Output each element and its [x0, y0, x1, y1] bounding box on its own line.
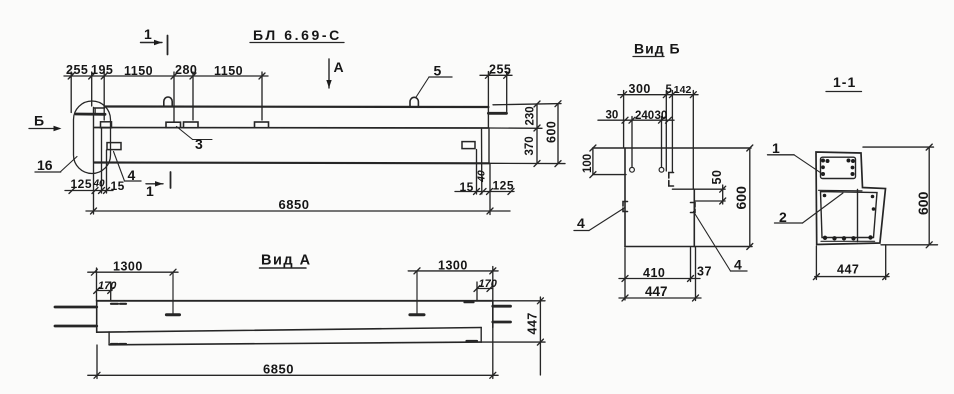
- bottom-right small dims 15 40 125: [455, 129, 514, 195]
- svg-text:100: 100: [582, 154, 594, 173]
- B left edge: [624, 148, 626, 247]
- protruding bar right: [488, 112, 506, 115]
- lifting loop 1: [164, 97, 172, 107]
- svg-text:1: 1: [144, 26, 152, 42]
- left notch step: [94, 107, 105, 109]
- plan mid line: [97, 328, 482, 333]
- plan lower-right step: [480, 328, 482, 343]
- svg-text:195: 195: [91, 63, 113, 77]
- svg-text:БЛ 6.69-С: БЛ 6.69-С: [253, 27, 342, 43]
- plan lower-left step: [108, 332, 110, 345]
- svg-text:142: 142: [674, 84, 692, 96]
- B notch bottom: [672, 188, 694, 190]
- svg-text:5: 5: [666, 84, 673, 96]
- dim 1300 left: [88, 260, 178, 302]
- dim 1300 right: [408, 259, 498, 302]
- title Вид Б: [633, 41, 681, 57]
- dim 170 left: [94, 280, 118, 301]
- plan bars left: [55, 306, 97, 309]
- plate 4 right: [462, 142, 475, 149]
- bottom-left small dims 125 40 15: [65, 128, 125, 214]
- svg-text:410: 410: [643, 266, 665, 280]
- rebar dots bottom cage: [823, 194, 876, 241]
- svg-text:15: 15: [460, 180, 474, 194]
- svg-text:255: 255: [66, 63, 88, 77]
- svg-text:1150: 1150: [214, 64, 243, 78]
- svg-text:А: А: [334, 59, 344, 75]
- B dim 50: [694, 170, 725, 204]
- svg-text:15: 15: [111, 179, 125, 193]
- svg-text:3: 3: [195, 136, 203, 152]
- section mark A: [326, 59, 343, 88]
- plan anchor T left: [172, 272, 174, 313]
- top dimension chain line: [64, 75, 268, 77]
- svg-text:1300: 1300: [438, 259, 468, 273]
- plate 4 left: [107, 143, 121, 150]
- dim 600 elevation: [557, 104, 559, 164]
- right web end face: [488, 128, 490, 163]
- B dim 300 5 142: [618, 82, 698, 189]
- label 2 section: [775, 193, 844, 225]
- svg-text:230: 230: [525, 106, 537, 125]
- label 16: [35, 157, 77, 174]
- svg-text:600: 600: [545, 121, 559, 143]
- B bar circles: [630, 167, 635, 172]
- section mark 1 top: [141, 26, 168, 55]
- svg-text:600: 600: [915, 191, 931, 215]
- plan surface marks right: [465, 301, 474, 303]
- svg-text:125: 125: [493, 179, 515, 193]
- plan surface marks left: [111, 303, 118, 305]
- lifting loop 2: [410, 97, 418, 106]
- dim 6850 plan: [88, 328, 498, 379]
- svg-text:4: 4: [577, 215, 585, 231]
- section mark 1 bottom: [146, 172, 171, 199]
- plan left end: [96, 301, 98, 332]
- svg-text:170: 170: [479, 278, 498, 290]
- svg-text:447: 447: [837, 263, 859, 277]
- svg-text:Вид А: Вид А: [261, 253, 312, 269]
- svg-text:280: 280: [175, 63, 197, 77]
- web bottom edge: [95, 161, 490, 164]
- inner vertical: [857, 190, 859, 242]
- svg-text:1-1: 1-1: [833, 74, 856, 90]
- bottom cage lower line: [821, 240, 875, 242]
- ledge line: [95, 127, 488, 130]
- plan right end: [492, 301, 494, 328]
- extension lines top chain: [70, 72, 72, 113]
- svg-text:1150: 1150: [124, 64, 153, 78]
- dim 447 plan: [481, 297, 545, 375]
- left end face: [93, 108, 95, 163]
- svg-text:1300: 1300: [113, 260, 143, 274]
- svg-text:370: 370: [524, 136, 536, 155]
- B bottom edge: [625, 246, 752, 248]
- B dim 600: [733, 145, 753, 250]
- B label 4 left: [574, 208, 625, 232]
- svg-text:447: 447: [645, 284, 668, 299]
- plate 3 pair left: [166, 122, 181, 127]
- protruding bar left: [76, 113, 105, 116]
- plate 3 at end: [101, 122, 112, 128]
- cage divider line: [819, 189, 863, 192]
- svg-text:Вид Б: Вид Б: [634, 41, 681, 57]
- svg-text:40: 40: [93, 179, 106, 190]
- title Вид А: [260, 253, 312, 269]
- right end face (flange): [487, 107, 489, 128]
- svg-text:600: 600: [733, 186, 749, 210]
- plan top edge: [97, 300, 493, 302]
- plan anchor T right: [416, 271, 418, 313]
- rebar dots top cage: [821, 159, 855, 177]
- section dim 600: [863, 144, 938, 248]
- plate 3 mid: [255, 122, 269, 128]
- title БЛ 6.69-С: [250, 27, 344, 43]
- svg-text:40: 40: [476, 170, 488, 183]
- svg-text:125: 125: [71, 177, 93, 191]
- svg-text:16: 16: [37, 157, 53, 173]
- dim 170 right: [474, 278, 498, 301]
- svg-text:4: 4: [734, 257, 742, 273]
- plan bars right: [493, 305, 511, 308]
- B dim 100: [582, 145, 626, 178]
- dim 230: [536, 104, 538, 128]
- B dim 30 240 30: [598, 110, 674, 167]
- stirrup 1 (top cage): [821, 157, 856, 178]
- svg-text:50: 50: [710, 170, 724, 185]
- B bracket left edge: [623, 202, 628, 212]
- svg-text:30: 30: [655, 110, 668, 122]
- B notch edge: [671, 148, 673, 172]
- svg-text:30: 30: [606, 110, 619, 122]
- svg-text:6850: 6850: [263, 362, 294, 377]
- svg-text:1: 1: [772, 140, 780, 156]
- svg-text:5: 5: [434, 63, 442, 79]
- view mark Б: [29, 113, 62, 132]
- B dim 447: [619, 248, 701, 302]
- svg-text:6850: 6850: [279, 197, 310, 212]
- section outline: [816, 152, 886, 245]
- svg-text:Б: Б: [34, 113, 44, 129]
- right side ext lines elevation: [493, 104, 561, 105]
- B dim 410 37: [619, 248, 712, 301]
- B notch bracket: [669, 173, 674, 187]
- svg-text:300: 300: [629, 82, 651, 96]
- B right edge: [693, 189, 695, 246]
- right 255 dim: [480, 74, 512, 76]
- svg-text:37: 37: [697, 265, 712, 279]
- svg-text:1: 1: [146, 183, 154, 199]
- svg-text:255: 255: [489, 63, 511, 77]
- B top edge: [593, 147, 751, 149]
- stirrup 2 (bottom cage): [821, 192, 878, 238]
- title 1-1: [826, 74, 862, 92]
- svg-text:240: 240: [635, 110, 654, 122]
- ticks top chain: [68, 73, 74, 79]
- label 1 section: [768, 140, 824, 175]
- dim 6850 elevation: [86, 164, 510, 215]
- B label 4 right: [694, 212, 748, 273]
- label 4 elevation: [114, 152, 142, 184]
- svg-text:170: 170: [98, 280, 117, 292]
- B bracket right edge: [691, 203, 696, 213]
- beam top edge: [105, 105, 489, 108]
- label 5: [416, 63, 452, 98]
- plan lower edge: [109, 342, 481, 345]
- detail oval: [74, 101, 111, 174]
- svg-text:447: 447: [526, 312, 540, 334]
- label 3: [177, 127, 213, 153]
- dim 370: [536, 128, 538, 163]
- section dim 447: [813, 245, 889, 280]
